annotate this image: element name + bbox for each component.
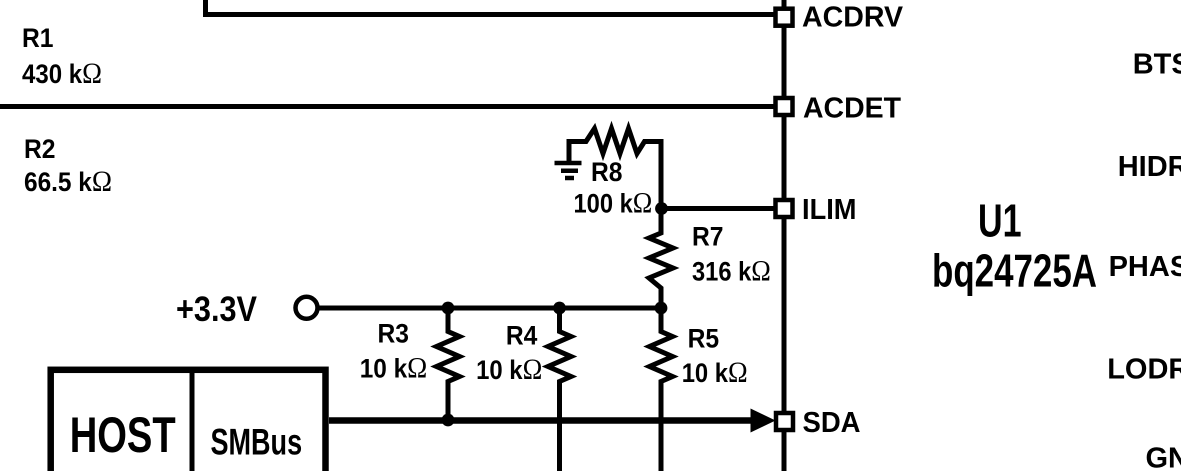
node R3 top: [442, 302, 455, 315]
svg-text:LODRV: LODRV: [1107, 354, 1181, 386]
svg-text:316 kΩ: 316 kΩ: [692, 255, 771, 288]
wire ACDET net from left edge: [0, 104, 775, 109]
HOST box divider: [190, 373, 195, 471]
ground: [555, 163, 582, 178]
node R4 top: [553, 302, 566, 315]
svg-text:R5: R5: [688, 324, 720, 354]
svg-text:SMBus: SMBus: [211, 422, 303, 463]
resistor R3: [437, 308, 460, 420]
svg-text:PHASE: PHASE: [1109, 251, 1181, 283]
svg-text:U1: U1: [978, 195, 1022, 247]
svg-text:ILIM: ILIM: [802, 194, 857, 226]
wire +3.3V rail: [318, 306, 661, 311]
HOST box: [51, 370, 326, 471]
wire SDA net: [329, 417, 757, 424]
svg-text:10 kΩ: 10 kΩ: [360, 352, 428, 385]
resistor R4: [548, 308, 571, 471]
svg-text:BTST: BTST: [1133, 49, 1181, 81]
wire ILIM net: [661, 206, 775, 211]
arrow into SDA pin: [751, 409, 776, 433]
svg-text:R8: R8: [591, 157, 623, 187]
wire IC U1 left edge: [782, 0, 787, 471]
svg-text:66.5 kΩ: 66.5 kΩ: [24, 165, 112, 198]
svg-text:R7: R7: [692, 222, 724, 252]
svg-text:10 kΩ: 10 kΩ: [682, 356, 748, 389]
svg-text:430 kΩ: 430 kΩ: [22, 57, 102, 90]
svg-text:ACDRV: ACDRV: [802, 2, 904, 34]
svg-text:ACDET: ACDET: [803, 93, 901, 125]
resistor R7: [649, 209, 673, 309]
svg-text:R4: R4: [506, 321, 538, 351]
pin square SDA: [776, 413, 793, 430]
svg-text:100 kΩ: 100 kΩ: [574, 187, 653, 220]
node R5 R7 junction: [655, 302, 668, 315]
wire ACDRV net from top edge: [206, 0, 776, 15]
svg-text:+3.3V: +3.3V: [176, 289, 257, 329]
svg-text:R3: R3: [378, 319, 410, 349]
svg-text:SDA: SDA: [803, 407, 861, 439]
svg-text:R1: R1: [22, 23, 54, 53]
terminal +3.3V open circle: [296, 297, 318, 319]
pin square ACDRV: [776, 9, 793, 26]
resistor R5: [650, 308, 673, 471]
pin square ACDET: [776, 98, 793, 115]
resistor R8 with wire down to ILIM node: [569, 129, 661, 209]
node ILIM junction: [655, 202, 668, 215]
svg-text:10 kΩ: 10 kΩ: [476, 353, 542, 386]
svg-text:GND: GND: [1146, 442, 1181, 471]
svg-text:HOST: HOST: [70, 407, 176, 463]
pin square ILIM: [776, 200, 793, 217]
node R3 bottom on SDA: [442, 414, 455, 427]
svg-text:HIDRV: HIDRV: [1118, 151, 1181, 183]
svg-text:R2: R2: [24, 134, 56, 164]
svg-text:bq24725A: bq24725A: [932, 245, 1097, 297]
